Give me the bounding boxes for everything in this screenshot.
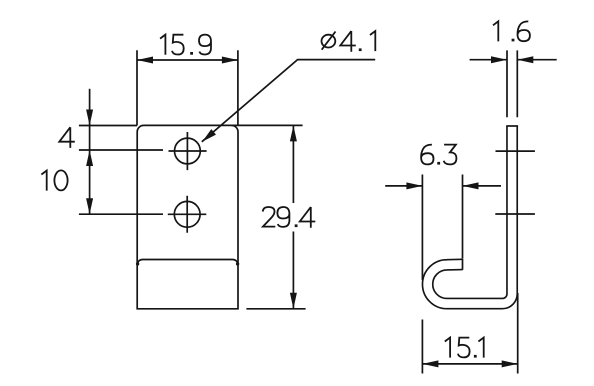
dim 15.9 extension lines — [137, 50, 238, 126]
text t294 — [263, 207, 276, 227]
arrowheads — [86, 56, 533, 367]
bend line end dots — [136, 262, 139, 265]
text t4 — [59, 127, 75, 148]
dim 29.4 line (broken for text) — [292, 125, 294, 308]
hole level tick lower — [495, 213, 535, 215]
dim 4/10 vertical line — [89, 89, 91, 214]
arrow 15.9 left — [137, 57, 153, 64]
dim 15.1 extension lines — [422, 293, 517, 374]
dim 15.9 line — [137, 59, 238, 61]
sheet body outer stroke — [428, 126, 512, 304]
hole level tick upper — [496, 150, 535, 152]
dim 4/10 extension lines — [79, 126, 163, 215]
arrow dim4/10 up at hole1 — [86, 150, 93, 166]
arrow 15.1 right — [502, 360, 518, 367]
text t151 — [445, 338, 450, 358]
dim 15.1 line — [422, 363, 517, 365]
dim 6.3 line tails — [385, 185, 501, 187]
arrow dim10 down at hole2 — [86, 198, 93, 214]
arrow 1.6 left pointing right — [491, 56, 507, 63]
arrow 6.3 left pointing right — [406, 182, 422, 189]
dim 29.4 extension lines — [232, 125, 306, 308]
arrow 29.4 top up — [290, 125, 297, 141]
sheet top end face — [506, 125, 518, 127]
leader line for hole dia — [202, 60, 375, 142]
dim 1.6 line tails — [470, 59, 557, 61]
hole H1 circle — [175, 138, 201, 164]
arrow 1.6 right pointing left — [517, 56, 533, 63]
dim 1.6 extension lines — [507, 50, 517, 117]
arrow 15.9 right — [222, 57, 238, 64]
arrow dim4 top down — [86, 110, 93, 126]
text t16 — [493, 21, 498, 41]
arrow 29.4 bottom down — [290, 293, 297, 309]
text t63 — [421, 145, 433, 165]
hole H2 crosshair — [168, 196, 207, 233]
text t041 — [322, 32, 336, 50]
sheet tip end face — [462, 259, 464, 270]
arrow 15.1 left — [422, 360, 438, 367]
plate outline — [137, 125, 238, 308]
hole H2 circle — [174, 201, 200, 227]
text t10 — [41, 171, 46, 191]
arrow 6.3 right pointing left — [463, 182, 479, 189]
bend line — [137, 260, 238, 265]
sheet body inner white — [428, 126, 512, 304]
dimension texts (single-stroke CAD style) — [41, 21, 530, 357]
text t159 — [160, 35, 165, 55]
leader arrowhead at hole — [202, 129, 216, 142]
hole H1 crosshair — [169, 132, 207, 170]
dim 6.3 extension lines — [422, 175, 462, 281]
